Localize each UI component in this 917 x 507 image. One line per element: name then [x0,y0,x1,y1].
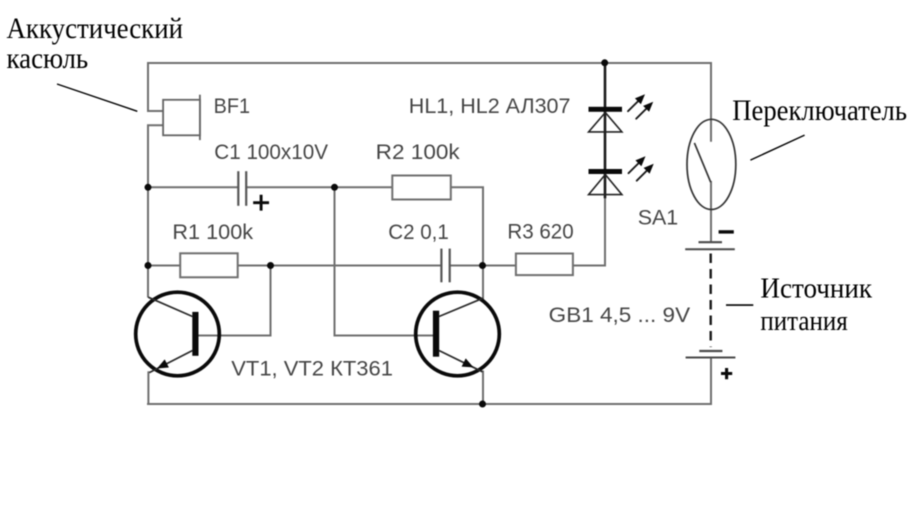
svg-text:R1 100k: R1 100k [172,220,253,244]
svg-text:BF1: BF1 [214,94,250,118]
svg-text:касюль: касюль [7,42,89,75]
svg-text:HL1, HL2 АЛ307: HL1, HL2 АЛ307 [409,94,571,118]
svg-text:SA1: SA1 [638,206,679,230]
svg-text:GB1 4,5 ... 9V: GB1 4,5 ... 9V [549,303,691,327]
svg-text:C2 0,1: C2 0,1 [388,220,449,244]
svg-text:C1 100x10V: C1 100x10V [214,140,328,164]
svg-text:питания: питания [760,306,847,337]
svg-text:VT1, VT2 КТ361: VT1, VT2 КТ361 [231,357,393,381]
svg-text:Аккустический: Аккустический [7,12,184,45]
svg-text:R3 620: R3 620 [507,220,573,244]
svg-text:Переключатель: Переключатель [732,94,907,127]
svg-text:R2 100k: R2 100k [376,140,460,164]
svg-text:Источник: Источник [760,274,872,305]
